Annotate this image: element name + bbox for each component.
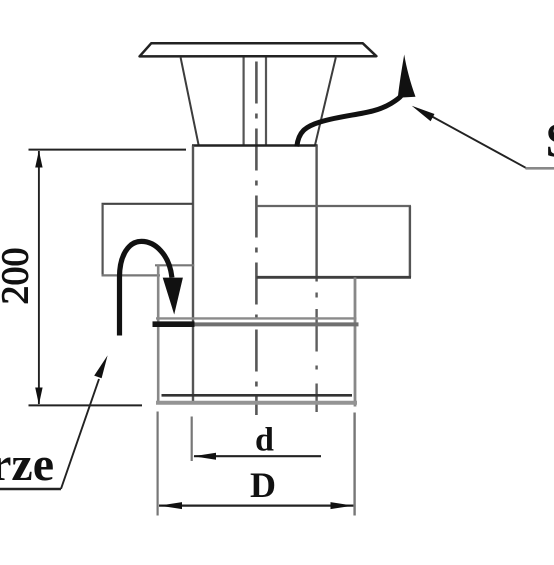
dimension 200 arrowhead top: [35, 151, 42, 168]
flange left edge: [101, 204, 103, 276]
thick exhaust arrowhead: [398, 55, 416, 98]
lower box right edge: [354, 277, 357, 406]
pipe left wall: [243, 58, 245, 146]
flange right bottom edge: [257, 276, 412, 279]
bottom outer line: [156, 401, 357, 405]
joint band upper grey line: [156, 317, 357, 319]
lower box top stub: [155, 264, 194, 266]
svg-text:D: D: [250, 465, 276, 505]
bottom inner line: [162, 394, 353, 397]
dimension D line: [159, 505, 353, 507]
thick exhaust arrow (s-curve): [297, 95, 402, 146]
thick air-inlet arrow (arc): [120, 241, 172, 335]
dimension d line: [194, 455, 321, 457]
svg-text:Spaliny: Spaliny: [546, 113, 554, 168]
centerline vertical axis: [255, 62, 258, 416]
body right edge solid part: [315, 146, 317, 282]
dimension 200 bottom extension line: [29, 404, 143, 406]
dimension 200 arrowhead bottom: [35, 388, 42, 405]
flange left top edge: [102, 203, 194, 205]
dimension D left arrowhead: [159, 502, 182, 509]
dimension d arrowhead: [193, 453, 216, 460]
svg-text:powietrze: powietrze: [0, 438, 54, 491]
cone left edge: [181, 58, 199, 147]
joint band lower grey line: [154, 322, 359, 326]
dimension D right arrowhead: [331, 502, 354, 509]
dimension d extension line: [191, 417, 193, 462]
top plate (cap): [140, 43, 377, 56]
leader to air label: [61, 379, 99, 489]
joint band black segment: [153, 321, 195, 327]
leader exhaust arrowhead: [412, 106, 435, 121]
dimension D right extension line: [353, 413, 355, 516]
lower box left edge: [157, 265, 160, 404]
leader air arrowhead: [94, 355, 107, 378]
dimension 200 top extension line: [29, 149, 187, 151]
body left edge: [192, 146, 194, 404]
body top edge: [192, 144, 318, 147]
pipe right wall: [265, 58, 267, 146]
cone right edge: [315, 58, 336, 147]
flange right top edge: [257, 205, 412, 207]
leader exhaust underline: [526, 167, 554, 170]
leader to exhaust label: [432, 117, 527, 169]
svg-text:200: 200: [0, 248, 37, 305]
body right edge dash-dot continuation: [315, 293, 317, 413]
thick air-inlet arrowhead: [163, 278, 183, 315]
svg-text:d: d: [255, 422, 274, 459]
dimension 200 line: [38, 151, 40, 404]
dimension D left extension line: [157, 412, 159, 516]
flange right edge: [409, 206, 411, 277]
flange left bottom edge: [102, 274, 161, 276]
leader air underline: [0, 488, 61, 490]
